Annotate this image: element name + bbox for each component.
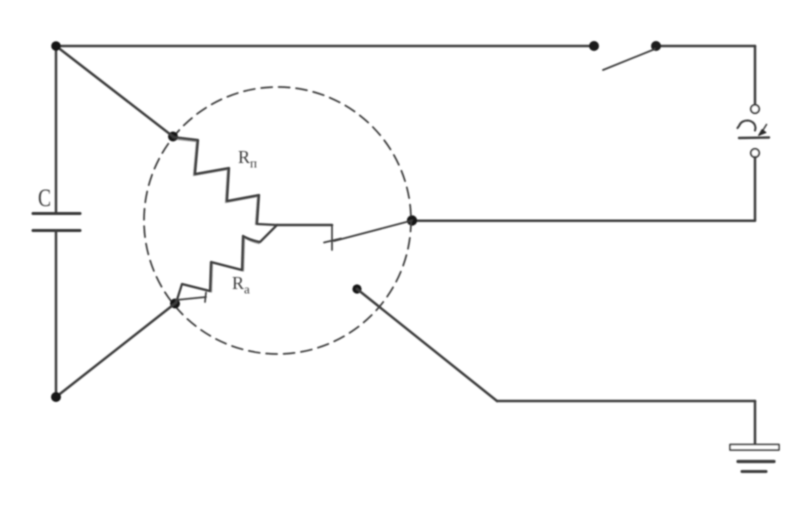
resistor Rp zigzag double-stroke bbox=[174, 139, 258, 225]
node bottom-left corner dot bbox=[51, 392, 61, 402]
svg-text:C: C bbox=[38, 184, 51, 212]
wire diagonal bottom-left bbox=[56, 304, 175, 398]
wiper arrow tick bbox=[324, 226, 341, 250]
wire diagonal bottom-right bbox=[357, 289, 497, 401]
node bottom-left on circle bbox=[170, 299, 180, 309]
capacitor C bottom plate bbox=[33, 229, 80, 232]
key K terminal upper bbox=[751, 105, 759, 113]
key K arrowhead bbox=[759, 130, 767, 136]
switch S1 right contact dot bbox=[651, 41, 661, 51]
wire top left horizontal bbox=[56, 45, 596, 48]
resistor Ra zigzag bbox=[176, 225, 277, 303]
switch S1 open arm bbox=[603, 49, 655, 70]
key K terminal lower bbox=[751, 149, 759, 157]
wire diagonal top-left bbox=[56, 46, 173, 137]
ground bar 3 bbox=[742, 470, 766, 473]
wire middle horizontal bbox=[412, 219, 755, 222]
wire left vertical upper bbox=[55, 46, 58, 213]
resistor Ra zigzag double-stroke bbox=[184, 238, 260, 293]
wiper diagonal lead bbox=[334, 221, 412, 242]
key K contact bar bbox=[739, 136, 769, 139]
capacitor C top plate bbox=[33, 212, 80, 215]
svg-text:Rп: Rп bbox=[238, 147, 257, 171]
wire top right horizontal bbox=[654, 45, 755, 48]
ground bar 2 bbox=[738, 460, 774, 463]
key K arrow bbox=[762, 125, 767, 133]
node top-left on circle bbox=[168, 132, 178, 142]
wiper horizontal lead bbox=[277, 224, 332, 227]
wire right vertical lower bbox=[754, 157, 757, 220]
resistor Ra end tick bbox=[176, 293, 206, 303]
resistor Rp zigzag bbox=[173, 137, 277, 225]
wire bottom horizontal bbox=[497, 400, 755, 403]
svg-text:Ra: Ra bbox=[232, 273, 250, 297]
node wiper-output dot bbox=[407, 215, 417, 225]
wire left vertical lower bbox=[55, 231, 58, 398]
wire ground stem bbox=[754, 401, 757, 446]
galvanometer body dashed circle bbox=[144, 87, 411, 354]
key K lever arc bbox=[738, 121, 756, 131]
ground bar 1 bbox=[730, 445, 779, 451]
node top-left corner dot bbox=[51, 41, 61, 51]
wire right vertical upper bbox=[754, 46, 757, 104]
node inside circle lower-right bbox=[352, 284, 361, 293]
switch S1 left contact dot bbox=[589, 41, 599, 51]
